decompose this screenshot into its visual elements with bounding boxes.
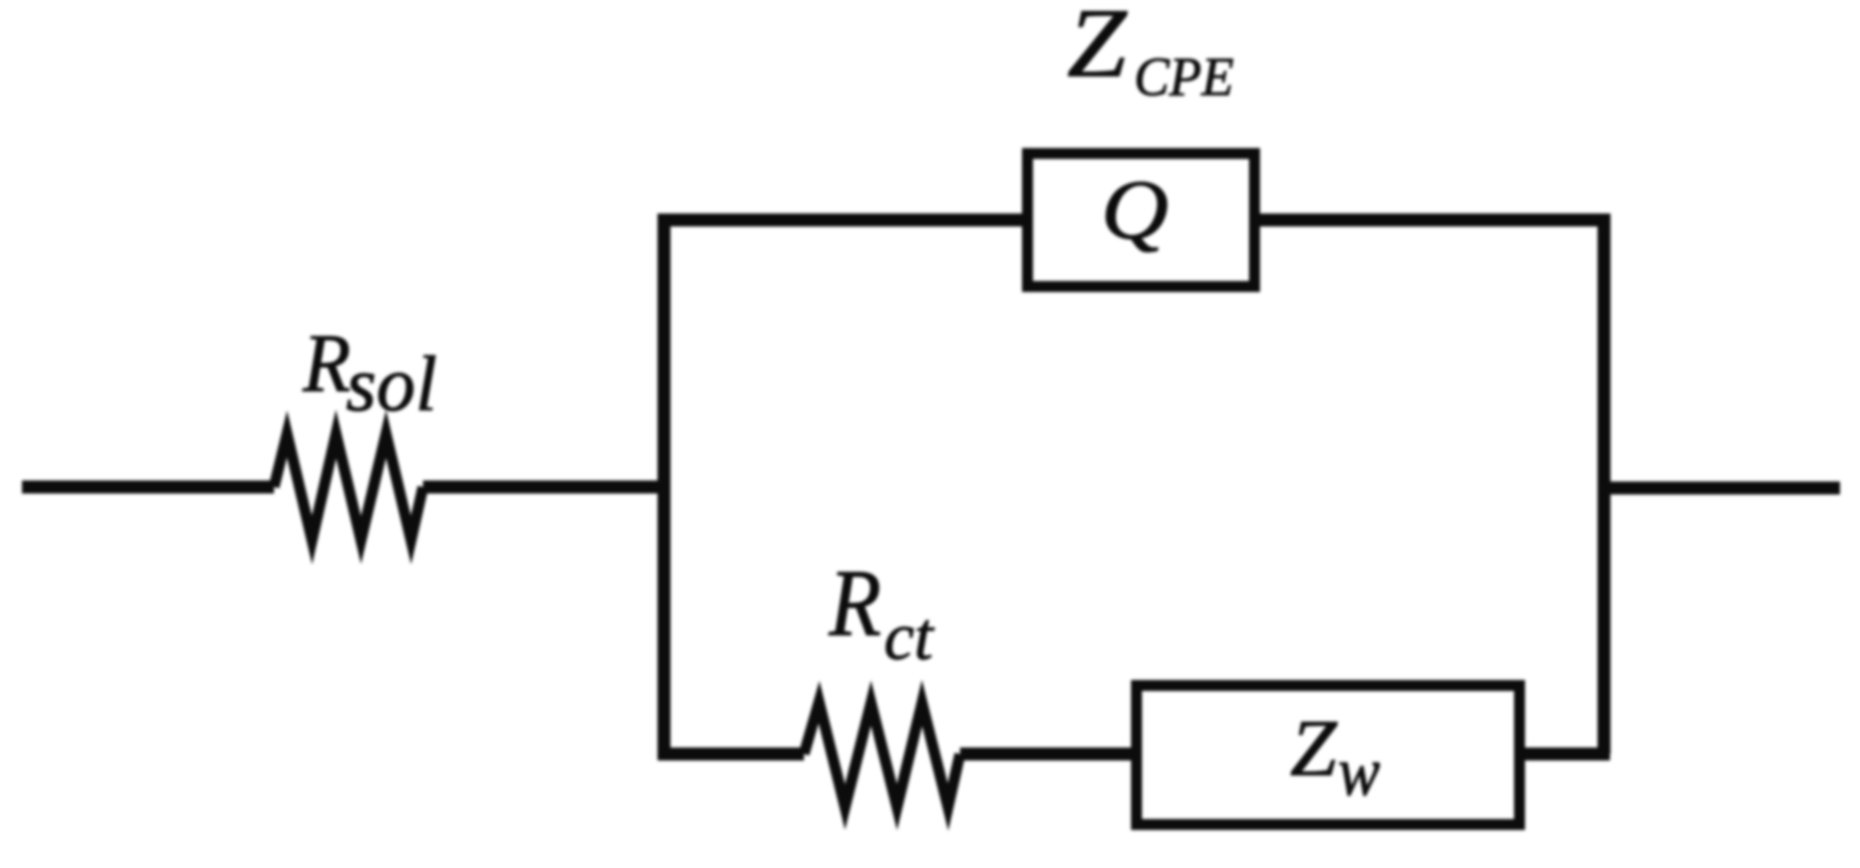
wire: Rsol to left node <box>423 481 668 494</box>
svg-text:R: R <box>828 550 881 656</box>
svg-text:ct: ct <box>884 598 935 674</box>
wire: Zw box to right vertical <box>1520 748 1610 761</box>
wire: right lead <box>1604 482 1840 495</box>
resistor Rsol zigzag <box>274 434 423 540</box>
wire: bottom-left horizontal <box>658 748 804 761</box>
wire: top-right horizontal + right vertical <box>1256 220 1604 754</box>
svg-text:Z: Z <box>1067 0 1128 98</box>
svg-text:Z: Z <box>1290 704 1338 793</box>
wire: left vertical + top-left horizontal <box>664 220 1026 760</box>
wire: Rct to Zw box <box>960 748 1138 761</box>
CPE box Q (Z_CPE element) <box>1028 154 1255 287</box>
svg-text:w: w <box>1338 734 1380 811</box>
svg-text:sol: sol <box>346 340 437 427</box>
svg-text:CPE: CPE <box>1134 46 1234 107</box>
Warburg box Zw <box>1137 686 1520 825</box>
wire: left lead <box>22 481 274 494</box>
svg-text:R: R <box>302 316 351 409</box>
resistor Rct zigzag <box>804 702 960 807</box>
svg-text:Q: Q <box>1101 163 1169 257</box>
